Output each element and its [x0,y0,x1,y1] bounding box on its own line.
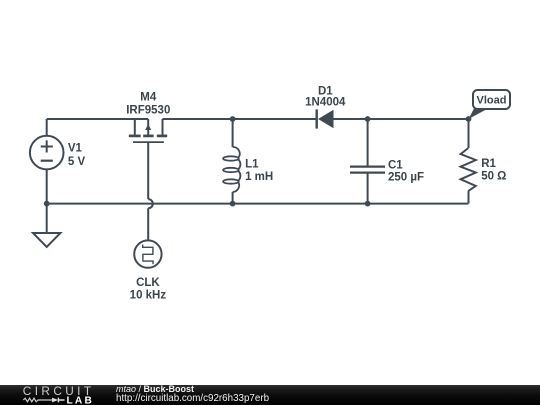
wire gate to CLK [147,208,149,240]
svg-text:LAB: LAB [67,395,95,405]
transistor M4 [129,119,167,199]
CircuitLab logo [0,385,110,405]
svg-text:L1: L1 [245,158,259,170]
footer title text [116,385,269,403]
svg-text:Vload: Vload [477,95,507,107]
node dot bottom L1 [230,201,236,207]
inductor L1 [223,119,240,204]
clock source CLK [134,240,161,267]
node dot top C1 [365,116,371,122]
ground [33,233,60,247]
transistor M4 arrow [145,124,151,130]
svg-text:5 V: 5 V [68,156,86,168]
wire V1 bottom stub [46,169,48,203]
svg-text:M4: M4 [140,91,157,103]
wire ground stub [46,204,48,233]
node dot top L1 [230,116,236,122]
svg-text:1N4004: 1N4004 [305,97,346,109]
wire bottom rail [47,203,469,205]
logo resistor zigzag [23,398,52,402]
node dot bottom V1 [44,201,50,207]
wire top rail D1 to Vload node [333,118,468,120]
wire top rail left (V1 to M4) [47,118,149,120]
svg-text:10 kHz: 10 kHz [130,290,167,302]
svg-text:50 Ω: 50 Ω [481,171,506,183]
wire top rail M4 to D1 [163,118,317,120]
diode D1 [317,109,334,128]
footer bar [0,385,540,405]
node dot bottom C1 [365,201,371,207]
voltage source V1 [30,136,64,170]
node label Vload pointer [469,109,489,120]
svg-text:250 µF: 250 µF [388,171,424,183]
svg-text:D1: D1 [318,85,333,97]
wire V1 top stub [46,119,48,136]
svg-text:CLK: CLK [136,277,160,289]
node label Vload box [473,90,510,109]
svg-text:IRF9530: IRF9530 [126,104,170,116]
svg-text:1 mH: 1 mH [245,171,273,183]
svg-text:C1: C1 [388,160,403,172]
capacitor C1 [350,119,385,204]
node dot Vload [466,116,472,122]
wire hop over bottom rail [148,199,153,208]
resistor R1 [461,119,476,204]
svg-text:V1: V1 [68,142,83,154]
logo diode [52,397,58,402]
svg-text:R1: R1 [481,158,496,170]
